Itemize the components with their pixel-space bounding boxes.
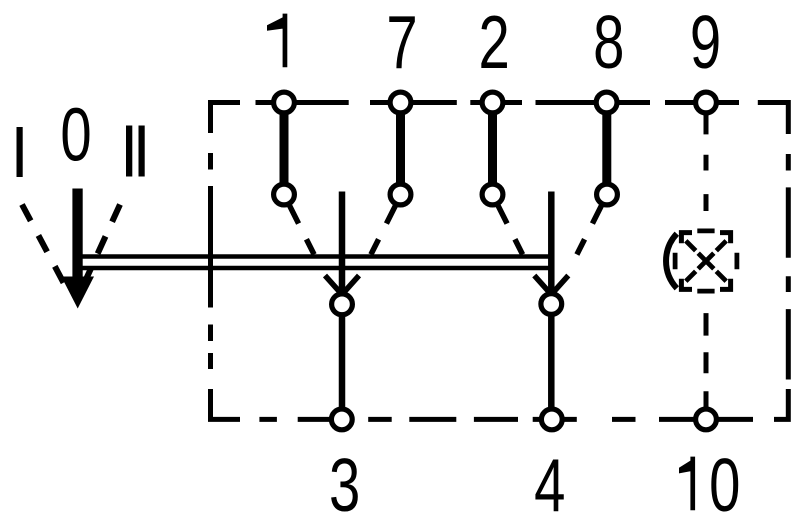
svg-text:4: 4 — [534, 444, 565, 528]
svg-text:0: 0 — [709, 444, 740, 528]
svg-text:3: 3 — [329, 444, 360, 528]
svg-text:9: 9 — [690, 1, 721, 85]
svg-text:8: 8 — [593, 1, 624, 85]
svg-text:2: 2 — [479, 1, 510, 85]
svg-text:0: 0 — [60, 94, 91, 178]
svg-text:7: 7 — [386, 1, 417, 85]
